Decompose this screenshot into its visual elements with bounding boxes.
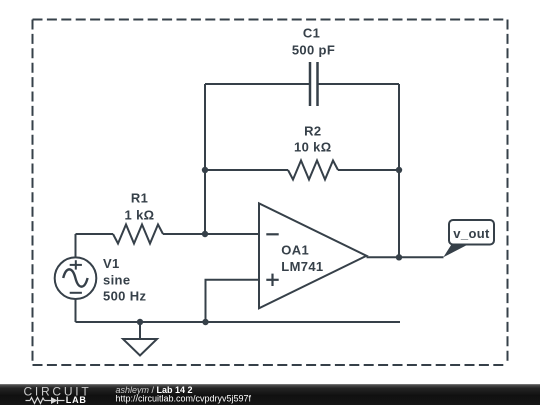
junction dot ground tap (137, 319, 143, 325)
svg-text:LM741: LM741 (281, 259, 323, 274)
wire: op-amp output lead (367, 256, 444, 258)
wire: C1 branch top horizontal left lead (205, 83, 309, 85)
schematic boundary dashed frame (33, 20, 508, 366)
wire: C1 branch top horizontal right lead (318, 83, 399, 85)
net flag v_out (443, 220, 494, 257)
svg-text:v_out: v_out (453, 226, 490, 241)
svg-text:OA1: OA1 (281, 242, 309, 257)
svg-text:500 pF: 500 pF (292, 43, 335, 58)
svg-text:C1: C1 (303, 26, 320, 41)
wire: op-amp non-inverting input lead (206, 280, 260, 322)
wire: C1 branch left vertical (node A down left side) (204, 84, 206, 234)
junction dot output node (396, 254, 402, 260)
op-amp inverting input minus sign (266, 233, 278, 235)
junction dot node out / R2 right (396, 167, 402, 173)
wire: output branch right vertical (398, 84, 400, 257)
wire: R1 right lead to op-amp inverting input (163, 233, 259, 235)
junction dot node A / R2 left (202, 167, 208, 173)
svg-text:1 kΩ: 1 kΩ (125, 208, 155, 223)
resistor R1 (113, 225, 163, 244)
junction dot non-inverting to ground rail (202, 319, 208, 325)
wire: R2 left lead (205, 169, 288, 171)
svg-text:R2: R2 (304, 124, 321, 139)
svg-text:R1: R1 (131, 191, 148, 206)
svg-text:LAB: LAB (66, 395, 87, 405)
svg-text:sine: sine (103, 272, 130, 287)
wire: bottom ground rail (76, 321, 401, 323)
svg-text:V1: V1 (103, 256, 120, 271)
voltage source V1 (55, 257, 97, 299)
svg-text:http://circuitlab.com/cvpdryv5: http://circuitlab.com/cvpdryv5j597f (116, 393, 252, 403)
op-amp non-inverting input plus sign (266, 274, 278, 286)
wire: R2 right lead (338, 169, 399, 171)
svg-text:10 kΩ: 10 kΩ (294, 140, 331, 155)
wire: V1 bottom vertical (75, 299, 77, 322)
op-amp OA1 triangle (259, 203, 367, 308)
CircuitLab logo mini schematic: wire, resistor, diode (26, 397, 65, 404)
wire: R1 left lead (76, 233, 114, 235)
ground symbol (123, 322, 157, 356)
svg-text:500 Hz: 500 Hz (103, 289, 146, 304)
wire: V1 top vertical to R1 (75, 234, 77, 258)
junction dot inverting node (202, 231, 208, 237)
capacitor C1 (310, 62, 318, 106)
resistor R2 (288, 161, 338, 180)
